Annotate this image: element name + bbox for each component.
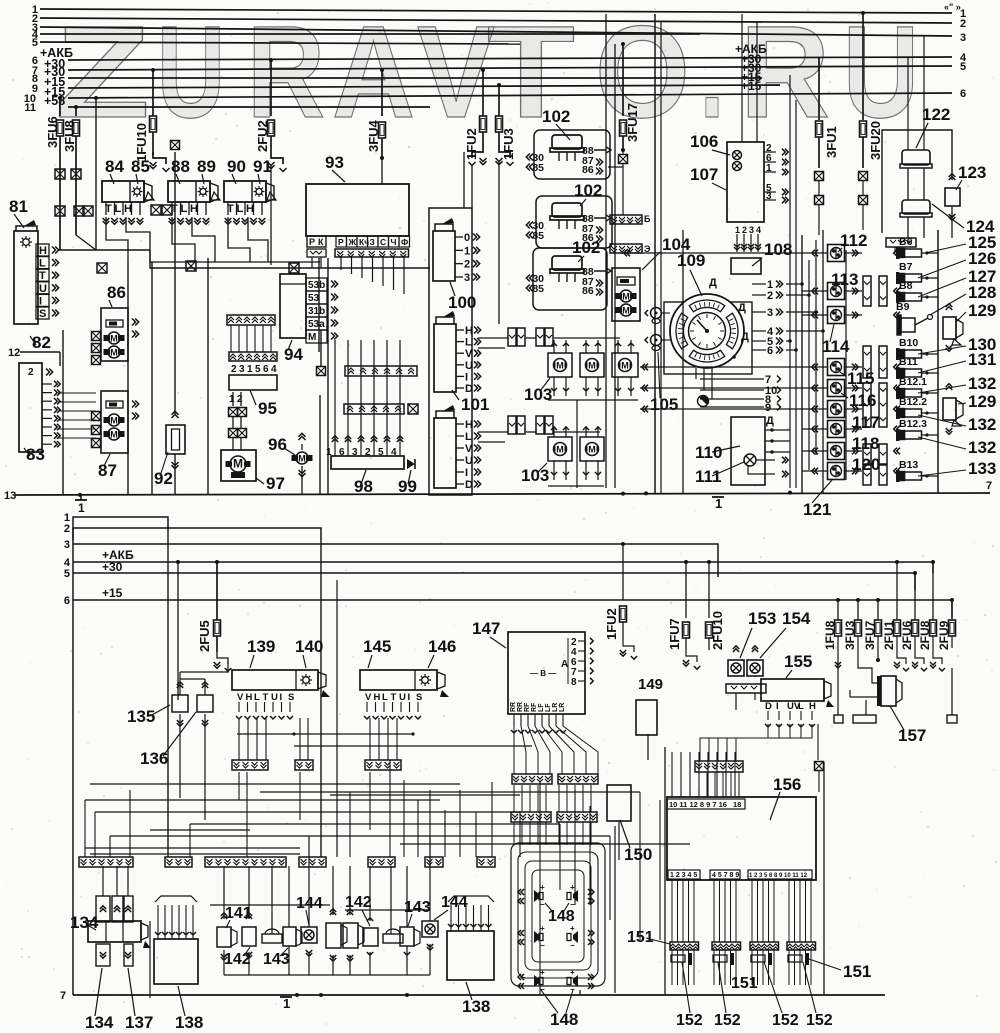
wires below 147 [513, 726, 515, 774]
relay 142 left [242, 927, 256, 946]
svg-text:114: 114 [822, 337, 850, 356]
svg-text:H: H [39, 245, 47, 257]
relay 116 [828, 380, 845, 397]
svg-text:RR: RR [510, 702, 517, 712]
svg-text:3: 3 [749, 225, 754, 235]
svg-text:LF: LF [545, 703, 552, 712]
svg-text:+58: +58 [44, 94, 65, 108]
lower bus line 2 [73, 528, 321, 540]
heater unit 86 [101, 308, 128, 361]
connector rows above 104 [610, 215, 642, 224]
vertical x178 [177, 562, 179, 700]
svg-text:M: M [621, 361, 629, 371]
wires strips to loops [513, 822, 515, 845]
svg-text:102: 102 [572, 238, 600, 257]
relay row extension y409 [640, 408, 802, 410]
fuse drop arrows [897, 648, 906, 664]
relay 134 cells upper [96, 896, 110, 922]
connector strip right [425, 857, 443, 867]
connector strip mid [205, 857, 286, 867]
156 top pin row [667, 799, 745, 809]
svg-text:86: 86 [582, 285, 594, 297]
svg-text:I: I [280, 692, 283, 703]
svg-text:140: 140 [295, 637, 323, 656]
motor 103 row2 b [580, 437, 604, 461]
svg-text:B10: B10 [899, 337, 918, 349]
connector pair left of 84 [74, 206, 84, 216]
ecu 149 [636, 700, 657, 735]
gauge arc bottom [689, 350, 725, 362]
speaker loop 3 [525, 861, 591, 970]
relay 120 [828, 463, 845, 480]
svg-text:132: 132 [968, 415, 996, 434]
relay row wires y315 [802, 314, 827, 316]
svg-text:3FU1: 3FU1 [824, 126, 839, 158]
wires 155 to strip [700, 724, 768, 761]
long vertical x938 [937, 230, 939, 493]
svg-text:1: 1 [247, 364, 253, 375]
enclosure 102 top [534, 130, 610, 179]
svg-text:Ф: Ф [401, 237, 408, 247]
connector 157 [877, 676, 881, 706]
ground symbol 1 left [80, 495, 82, 500]
svg-text:3: 3 [239, 364, 245, 375]
wires 103 row2 [553, 461, 555, 480]
svg-text:U: U [465, 455, 473, 467]
motor 103 row1 c [612, 353, 638, 377]
svg-text:2FU6: 2FU6 [900, 620, 914, 650]
svg-text:B12.3: B12.3 [899, 418, 927, 430]
svg-text:152: 152 [772, 1012, 799, 1029]
svg-text:M: M [233, 457, 243, 471]
svg-text:M: M [110, 430, 118, 440]
svg-text:102: 102 [574, 181, 602, 200]
svg-text:H: H [246, 203, 254, 215]
diode 99 [407, 459, 415, 469]
wire 3FU17 to 104 [622, 150, 624, 154]
relay 143 left [283, 927, 296, 946]
svg-text:109: 109 [677, 251, 705, 270]
svg-text:152: 152 [806, 1012, 833, 1029]
svg-text:V: V [465, 443, 473, 455]
svg-text:M: M [622, 306, 630, 316]
enclosure 122 [882, 130, 952, 233]
connector strip mid c [368, 857, 395, 867]
svg-text:8: 8 [571, 677, 577, 688]
lamp 105 b [651, 335, 662, 346]
arrow drop 2FU2 [271, 152, 283, 164]
svg-text:99: 99 [398, 477, 417, 496]
svg-text:B13: B13 [899, 459, 918, 471]
svg-text:+: + [570, 924, 575, 933]
svg-text:85: 85 [532, 283, 544, 295]
connector strips under 139 [232, 760, 268, 770]
svg-text:111: 111 [695, 467, 722, 486]
svg-text:L: L [181, 203, 188, 215]
svg-text:3: 3 [64, 539, 70, 551]
svg-text:53b: 53b [308, 280, 325, 291]
svg-text:3FU4: 3FU4 [366, 119, 381, 152]
svg-text:129: 129 [968, 392, 996, 411]
svg-text:3FU8: 3FU8 [62, 120, 77, 152]
svg-text:3: 3 [767, 307, 773, 319]
svg-text:З: З [370, 237, 375, 247]
svg-text:10 11 12 8 9 7 16: 10 11 12 8 9 7 16 [669, 800, 727, 809]
svg-text:87: 87 [98, 461, 117, 480]
svg-text:101: 101 [461, 395, 489, 414]
bus line 9 +15 [68, 85, 780, 88]
svg-text:106: 106 [690, 132, 718, 151]
relay 113 [828, 283, 845, 300]
svg-text:143: 143 [404, 899, 431, 916]
fuse 3FU3 [857, 600, 859, 620]
svg-text:1: 1 [78, 501, 85, 515]
svg-text:H: H [124, 203, 132, 215]
106 pins [764, 151, 776, 153]
svg-text:152: 152 [714, 1012, 741, 1029]
connector strips under 147 [512, 774, 552, 784]
wire x606 [605, 14, 607, 488]
svg-text:151: 151 [627, 929, 654, 946]
relay row wires y409 [802, 408, 827, 410]
arrow drop 1FU2 [472, 148, 483, 158]
svg-text:0: 0 [464, 232, 470, 244]
ECU box 93 [306, 184, 409, 236]
svg-text:89: 89 [197, 157, 216, 176]
switch 101 lower [434, 418, 456, 488]
relay 115 [828, 359, 845, 376]
svg-text:113: 113 [831, 270, 858, 289]
feed 135 136 [180, 662, 228, 672]
svg-text:1: 1 [715, 496, 722, 511]
lamp switch 154 [747, 660, 763, 676]
svg-text:1: 1 [464, 245, 470, 257]
feeder horizontals mid bottom [210, 904, 330, 906]
lamp 111 [744, 454, 756, 466]
svg-text:157: 157 [898, 726, 926, 745]
lamp switch 153 [728, 660, 744, 676]
routing band extras [90, 783, 460, 785]
fuse 2FU8 [932, 562, 934, 620]
svg-text:L: L [382, 692, 388, 703]
relay 114 [828, 307, 845, 324]
svg-text:L: L [237, 203, 244, 215]
svg-text:132: 132 [968, 438, 996, 457]
bulbs 151 152 group1 [671, 955, 685, 962]
svg-text:3FU17: 3FU17 [625, 103, 640, 142]
svg-text:S: S [39, 308, 46, 320]
svg-text:2: 2 [237, 394, 243, 405]
svg-text:128: 128 [968, 283, 996, 302]
speaker chevrons [518, 889, 524, 895]
svg-text:H: H [190, 203, 198, 215]
svg-text:К: К [318, 237, 324, 247]
connector strip left b [165, 857, 192, 867]
svg-text:112: 112 [840, 231, 867, 250]
wires into 156 top [671, 752, 673, 797]
svg-text:7: 7 [60, 990, 66, 1002]
connector x320 [319, 395, 321, 495]
wiper motor 102 c [533, 248, 607, 310]
lamp switch 144 right [422, 921, 438, 937]
gauge right pins [752, 283, 766, 285]
svg-text:146: 146 [428, 637, 456, 656]
bus line 2 [40, 18, 952, 23]
relay block 84 85 [102, 181, 144, 202]
label leader lines [925, 244, 966, 253]
svg-text:L: L [39, 258, 46, 270]
svg-text:L: L [115, 203, 122, 215]
fuse 1FU2 [481, 68, 485, 72]
flasher 141 left [217, 927, 231, 947]
svg-text:+: + [570, 883, 575, 892]
svg-text:M: M [588, 361, 596, 371]
svg-text:13: 13 [4, 490, 16, 502]
wire 2FU9 down [951, 668, 953, 715]
svg-text:T: T [39, 270, 46, 282]
svg-text:H: H [246, 692, 253, 703]
arrow drop 1FU3 [499, 148, 510, 158]
svg-text:96: 96 [268, 435, 287, 454]
wire x96 [94, 96, 98, 100]
svg-text:V: V [237, 692, 244, 703]
fuse 2FU10 [708, 562, 710, 618]
svg-text:4 5 7 8 9: 4 5 7 8 9 [712, 872, 739, 879]
vertical x337 [336, 580, 338, 857]
ground box 1FU8 [834, 715, 843, 723]
svg-text:2FU10: 2FU10 [710, 611, 725, 650]
wiper switch 155 [761, 679, 824, 701]
long vertical x683 [682, 230, 684, 493]
wires 103 row1 [553, 377, 555, 396]
svg-text:5: 5 [64, 568, 70, 580]
svg-text:153: 153 [748, 609, 776, 628]
component 82 column switch [14, 231, 38, 324]
wires 109 down [695, 368, 697, 379]
fuse 3FU17 [621, 42, 625, 46]
wire drop x382 to 93 [381, 158, 383, 184]
svg-text:1: 1 [766, 163, 772, 174]
svg-text:126: 126 [968, 249, 996, 268]
wires strip to 134 [102, 866, 104, 896]
svg-text:102: 102 [542, 107, 570, 126]
instrument cluster 109 [670, 294, 744, 368]
unit 106 107 [727, 142, 764, 222]
fuse 1FU8 [837, 600, 839, 620]
svg-text:2FU5: 2FU5 [197, 620, 212, 652]
svg-text:U: U [271, 692, 278, 703]
unit 135 [172, 695, 188, 712]
bus line 3 [40, 27, 952, 36]
wires to mid bottom components [223, 866, 225, 919]
relay row extension 253 [620, 252, 802, 254]
svg-text:1FU3: 1FU3 [501, 128, 516, 160]
unit 136 [197, 695, 213, 712]
svg-text:I: I [465, 371, 468, 383]
svg-text:M: M [308, 332, 316, 343]
relay 121 pos [828, 401, 845, 418]
connector bar 122 [886, 238, 916, 247]
junction 98 [332, 436, 338, 442]
svg-text:−: − [570, 941, 575, 950]
frame 156 section [664, 747, 666, 995]
svg-text:M: M [556, 445, 564, 455]
fuse 1FU3 [497, 83, 501, 87]
svg-text:2: 2 [464, 259, 470, 271]
unit 123 [945, 188, 960, 206]
svg-text:149: 149 [638, 676, 663, 693]
svg-text:121: 121 [803, 500, 831, 519]
svg-text:2: 2 [28, 367, 34, 378]
relay block 90 91 [224, 181, 266, 202]
svg-text:142: 142 [345, 894, 372, 911]
wire bundle above 98 [334, 340, 336, 456]
svg-text:1 2 3 5 6 8 9 10 11 12: 1 2 3 5 6 8 9 10 11 12 [749, 873, 808, 879]
motor 103 row1 b [580, 353, 604, 377]
svg-text:2: 2 [767, 290, 773, 302]
svg-text:129: 129 [968, 301, 996, 320]
fuse 1FU2 lower [622, 544, 624, 600]
svg-text:132: 132 [968, 374, 996, 393]
svg-text:136: 136 [140, 749, 168, 768]
svg-text:I: I [465, 467, 468, 479]
svg-text:131: 131 [968, 350, 996, 369]
fuse 3FU4 [380, 68, 384, 72]
fuse 3FU20 [861, 11, 865, 15]
svg-text:7: 7 [986, 480, 992, 492]
svg-text:107: 107 [690, 165, 718, 184]
svg-text:U: U [157, 0, 225, 145]
vertical wire x128 [127, 262, 129, 495]
relay 143 right [400, 927, 414, 946]
relay 118 [828, 443, 845, 460]
svg-text:95: 95 [258, 399, 277, 418]
svg-text:+15: +15 [741, 79, 762, 93]
svg-text:6: 6 [64, 595, 70, 607]
fuse 2FU6 [914, 573, 916, 620]
svg-text:RF: RF [524, 702, 531, 712]
svg-text:156: 156 [773, 775, 801, 794]
svg-text:M: M [298, 454, 306, 464]
unit 110 [731, 417, 765, 485]
connector strip above 156 [695, 761, 743, 772]
chassis line 13 [15, 493, 990, 495]
svg-text:M: M [110, 416, 118, 426]
svg-text:D: D [465, 479, 473, 491]
gauge lamp bottom [698, 396, 709, 407]
left vertical lower [72, 528, 74, 995]
fuse 1FU7 [685, 562, 687, 618]
long vertical x823 [822, 230, 824, 493]
svg-text:90: 90 [227, 157, 246, 176]
fuse 3FU7 [877, 600, 879, 620]
right group 141 [343, 923, 358, 948]
strip feeding right 138 [477, 857, 495, 867]
svg-text:94: 94 [284, 345, 303, 364]
gauge arc right [726, 313, 738, 349]
svg-text:100: 100 [448, 293, 476, 312]
wires out 156 bottom groups [671, 880, 673, 942]
lamp unit 138 left [154, 939, 198, 984]
svg-text:RF: RF [531, 702, 538, 712]
svg-text:U: U [39, 283, 47, 295]
switch 100 [433, 231, 455, 281]
arrow drop 1FU10 [152, 152, 154, 158]
strips under 156 [670, 942, 699, 950]
svg-text:Ч: Ч [391, 237, 397, 247]
chassis line 7 [73, 994, 885, 996]
svg-text:I: I [776, 701, 779, 712]
svg-text:RR: RR [517, 702, 524, 712]
buzzer 143 flat [262, 934, 282, 943]
junction block 95 upper strip [227, 315, 275, 325]
wire 3FU20 drop [859, 172, 868, 181]
svg-text:4: 4 [271, 364, 277, 375]
connector strip x538 [536, 328, 544, 346]
svg-text:2: 2 [64, 523, 70, 535]
svg-text:138: 138 [175, 1013, 203, 1032]
chassis junction dots [621, 492, 625, 496]
relay 84 wire bundle [106, 217, 128, 262]
svg-text:L: L [254, 692, 260, 703]
svg-text:S: S [416, 692, 422, 703]
93 pin cells PK [307, 236, 326, 247]
connector column 86 [92, 332, 101, 341]
wire fan 83 to 87 [58, 392, 96, 394]
connector strips column A [863, 276, 871, 306]
wires strip to 156 [698, 772, 700, 797]
svg-text:1: 1 [283, 996, 290, 1011]
svg-text:6: 6 [767, 345, 773, 357]
svg-text:С: С [380, 237, 386, 247]
svg-text:1: 1 [229, 394, 235, 405]
relay row wires y471 [802, 470, 827, 472]
long vertical x816 [815, 240, 817, 455]
svg-text:B11: B11 [899, 356, 918, 368]
wires relay area to 98 [150, 261, 320, 263]
svg-text:81: 81 [9, 197, 28, 216]
bus line 10 +15 [68, 93, 952, 98]
svg-text:138: 138 [462, 997, 490, 1016]
svg-text:12: 12 [8, 347, 20, 359]
svg-text:L: L [465, 337, 472, 349]
connector strip x515 [508, 328, 516, 346]
svg-text:M: M [622, 292, 630, 302]
bus line 11 +58 [68, 106, 430, 108]
svg-text:+15: +15 [102, 586, 123, 600]
svg-text:Д: Д [709, 277, 717, 289]
vertical pair x319 [318, 258, 320, 352]
svg-text:L: L [465, 431, 472, 443]
component 83 fuse-relay box [19, 363, 42, 452]
svg-text:142: 142 [224, 951, 251, 968]
svg-text:53a: 53a [308, 319, 325, 330]
speaker connector strip left [511, 812, 551, 822]
unit 124 [902, 200, 930, 214]
cross wires 139-145 [237, 733, 413, 735]
svg-text:B12.1: B12.1 [899, 376, 927, 388]
svg-text:B8: B8 [899, 280, 913, 292]
svg-text:4: 4 [756, 225, 761, 235]
svg-text:6: 6 [263, 364, 269, 375]
right group 137 [326, 923, 341, 948]
fuse 3FU6 [58, 96, 62, 100]
fuse 1FU10 [151, 68, 155, 72]
bulbs group3 [751, 955, 765, 962]
svg-text:103: 103 [521, 466, 549, 485]
svg-text:3FU3: 3FU3 [843, 620, 857, 650]
svg-text:93: 93 [325, 153, 344, 172]
